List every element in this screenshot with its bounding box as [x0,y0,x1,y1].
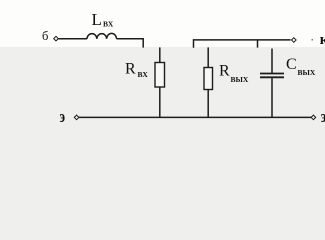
wire inductor to corner [117,38,144,40]
top rail with left corner [194,40,291,48]
node e left (emitter label) [60,108,66,126]
corner stub down after inductor [142,39,144,48]
wire base to inductor [59,38,88,40]
terminal diamond collector [292,38,297,43]
resistor R_vx lead bottom [159,87,161,117]
svg-text:б: б [42,29,48,43]
label R_vx [125,61,148,79]
dot artifact [312,39,314,41]
svg-text:к: к [320,32,325,48]
label L_vx [92,10,114,29]
resistor R_vyx lead top [207,47,209,67]
svg-text:L: L [92,10,102,29]
resistor R_vyx body [204,68,213,90]
svg-text:ВЫХ: ВЫХ [231,75,249,84]
capacitor plate bottom [260,76,284,78]
node e right (emitter label, clipped) [321,108,325,126]
svg-text:ВХ: ВХ [103,20,114,29]
terminal diamond emitter left [74,115,79,120]
capacitor C_vyx lead bottom [271,78,273,117]
svg-text:C: C [286,56,297,73]
resistor R_vx body [155,63,165,88]
terminal diamond base [54,36,59,41]
svg-text:ВЫХ: ВЫХ [298,68,316,77]
rail stub down to capacitor [257,40,259,48]
label C_vyx [286,56,316,77]
label R_vyx [219,63,249,85]
background lower band [0,0,325,156]
capacitor plate top [260,73,284,75]
svg-text:э: э [321,108,325,126]
background top white band [0,0,325,47]
resistor R_vyx lead bottom [207,90,209,118]
capacitor C_vyx lead top [271,49,273,74]
resistor R_vx lead top [159,47,161,62]
terminal diamond emitter right [311,115,316,120]
svg-text:R: R [125,61,136,78]
svg-text:R: R [219,63,230,80]
svg-text:э: э [60,108,66,126]
inductor L_vx [87,33,117,38]
svg-text:ВХ: ВХ [138,70,149,79]
bottom rail [79,116,311,118]
